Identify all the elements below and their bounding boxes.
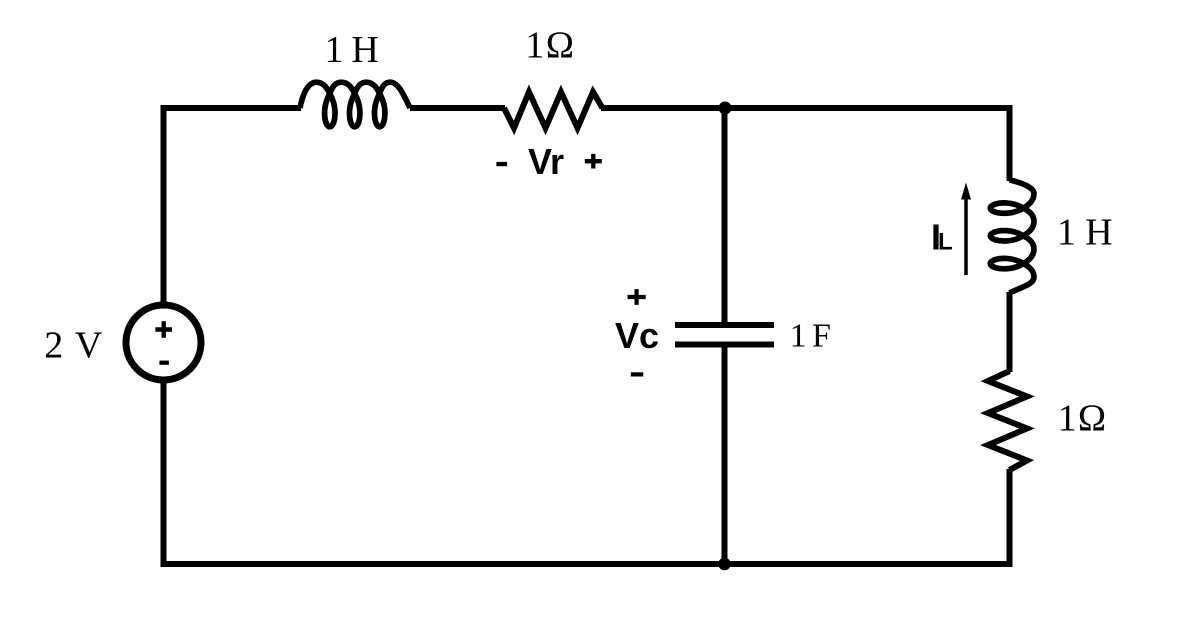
svg-text:1: 1	[1057, 212, 1076, 254]
svg-text:L: L	[938, 229, 953, 256]
wire top left horizontal	[161, 105, 302, 111]
voltage source V1 circle	[126, 305, 201, 380]
svg-text:V: V	[75, 325, 103, 367]
svg-text:F: F	[812, 318, 831, 355]
wire right vertical lower	[1007, 469, 1013, 567]
wire bottom horizontal	[161, 561, 1013, 567]
resistor R2 1ohm vertical zigzag	[988, 371, 1027, 470]
plus sign above Vc	[628, 289, 646, 305]
svg-text:H: H	[351, 29, 378, 71]
wire capacitor branch upper	[722, 108, 728, 322]
svg-text:Ω: Ω	[1078, 398, 1106, 440]
wire right vertical upper	[1007, 105, 1013, 181]
wire top middle	[410, 105, 505, 111]
capacitor C1 bottom plate	[675, 342, 774, 348]
inductor L2 1H vertical coil	[990, 180, 1034, 293]
svg-text:1: 1	[525, 25, 544, 67]
wire capacitor branch lower	[722, 345, 728, 568]
node B junction dot bottom	[718, 558, 731, 571]
plus sign of Vr	[585, 154, 602, 169]
inductor L1 1H horizontal coil	[300, 82, 410, 127]
minus sign inside source	[159, 361, 169, 365]
svg-text:2: 2	[44, 325, 63, 367]
capacitor C1 top plate	[675, 322, 774, 328]
svg-text:Vr: Vr	[528, 141, 564, 182]
resistor R1 1ohm horizontal zigzag	[504, 92, 603, 128]
svg-text:H: H	[1085, 212, 1112, 254]
current arrow IL head	[961, 183, 971, 200]
node A junction dot top	[719, 102, 732, 115]
wire left vertical lower	[161, 381, 167, 567]
svg-text:Ω: Ω	[546, 25, 574, 67]
wire left vertical upper	[161, 105, 167, 303]
current arrow IL line	[964, 197, 968, 275]
svg-text:1: 1	[325, 29, 344, 71]
svg-text:1: 1	[1058, 398, 1077, 440]
wire top right horizontal	[601, 105, 1013, 111]
minus sign of Vr	[496, 162, 507, 166]
plus sign inside source	[155, 321, 172, 338]
wire right vertical middle	[1007, 292, 1013, 372]
svg-text:Vc: Vc	[615, 315, 659, 356]
minus sign below Vc	[631, 372, 644, 376]
svg-text:1: 1	[790, 318, 807, 355]
